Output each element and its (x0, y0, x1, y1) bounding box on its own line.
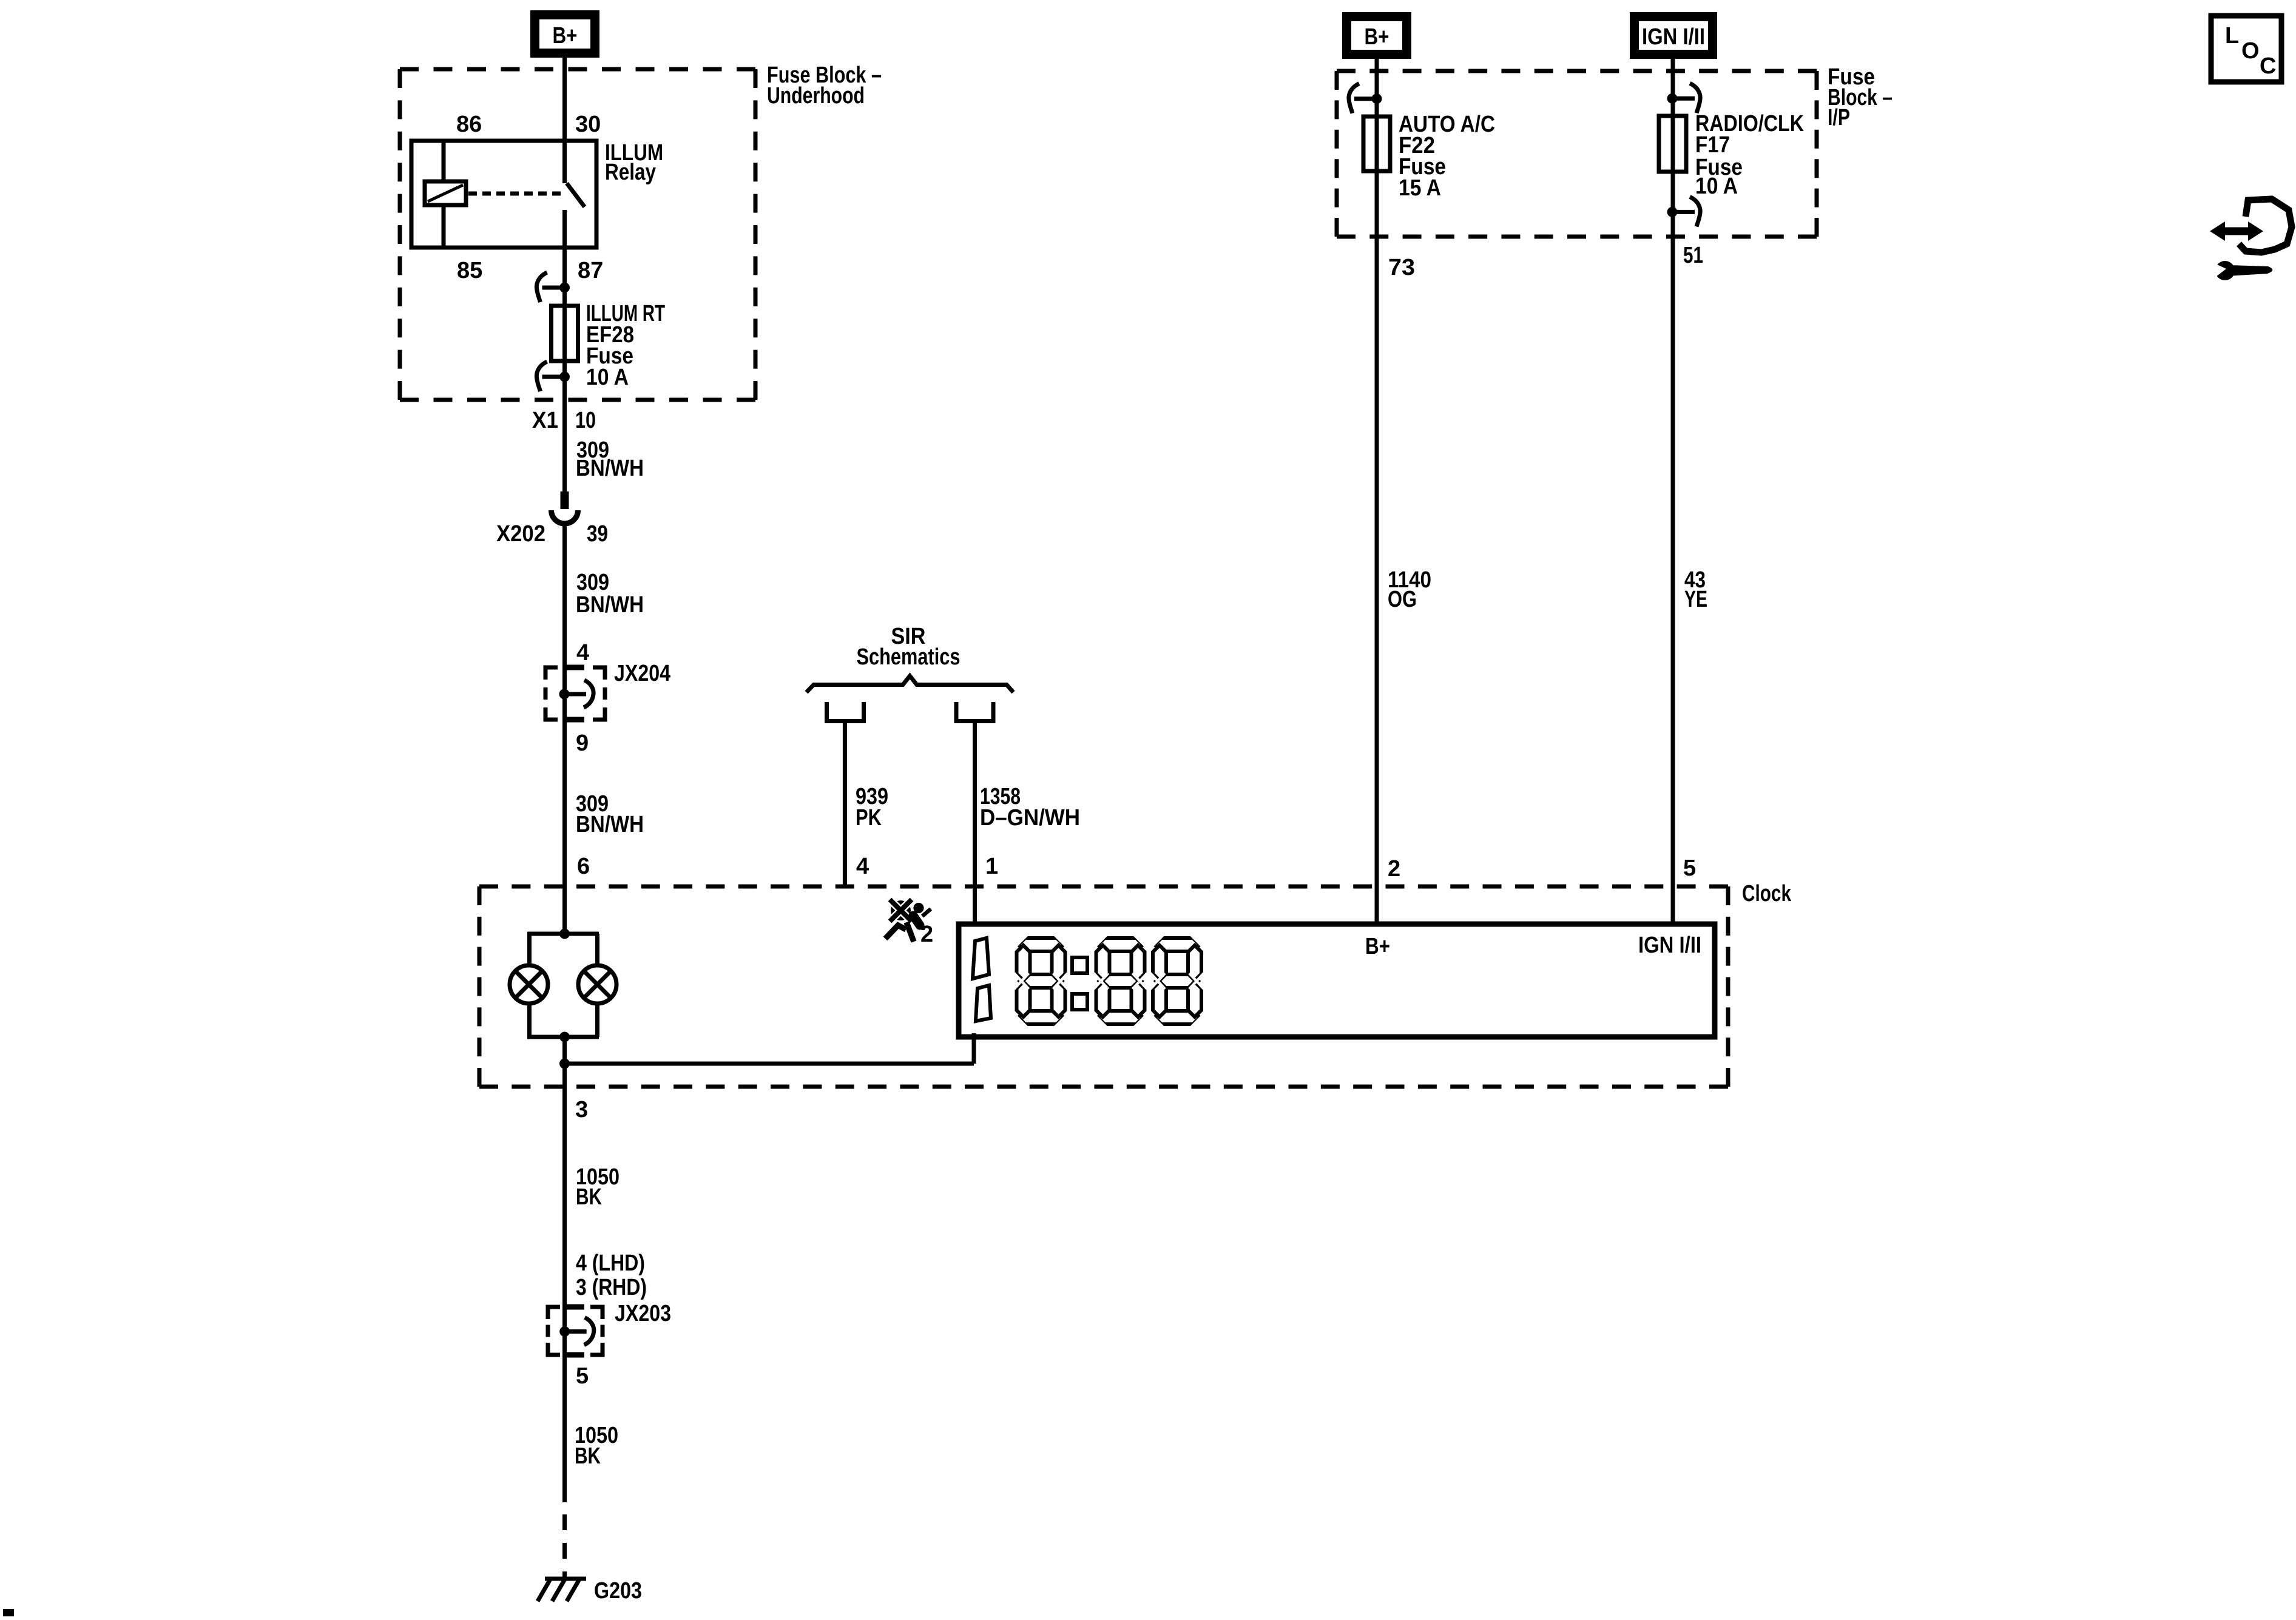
svg-text:Underhood: Underhood (767, 83, 865, 109)
svg-text:BK: BK (576, 1184, 602, 1210)
svg-text:4: 4 (576, 640, 589, 666)
svg-text:JX204: JX204 (614, 661, 670, 686)
svg-text:85: 85 (457, 258, 482, 283)
svg-text:BN/WH: BN/WH (576, 592, 644, 618)
svg-text:X1: X1 (532, 408, 558, 433)
svg-text:10 A: 10 A (586, 365, 629, 390)
svg-text:6: 6 (577, 854, 590, 879)
svg-text:D–GN/WH: D–GN/WH (980, 805, 1080, 831)
svg-text:G203: G203 (594, 1578, 642, 1604)
svg-text:51: 51 (1683, 243, 1703, 268)
svg-text:YE: YE (1684, 587, 1707, 612)
svg-text:4: 4 (856, 854, 869, 879)
svg-text:5: 5 (1683, 856, 1696, 881)
svg-text:5: 5 (576, 1363, 589, 1389)
svg-text:3 (RHD): 3 (RHD) (576, 1275, 647, 1300)
svg-text:BN/WH: BN/WH (576, 456, 644, 481)
svg-text:Relay: Relay (605, 160, 656, 185)
svg-text:9: 9 (576, 731, 589, 756)
svg-text:30: 30 (575, 112, 601, 137)
svg-text:C: C (2260, 53, 2276, 79)
svg-text:86: 86 (456, 112, 482, 137)
svg-text:X202: X202 (496, 521, 545, 547)
svg-text:O: O (2241, 38, 2260, 64)
svg-text:B+: B+ (1365, 934, 1390, 959)
svg-text:BN/WH: BN/WH (576, 812, 644, 837)
svg-text:Schematics: Schematics (857, 644, 961, 670)
svg-text:39: 39 (587, 521, 608, 547)
svg-text:309: 309 (576, 570, 609, 595)
svg-text:IGN I/II: IGN I/II (1642, 24, 1705, 50)
svg-text:Clock: Clock (1742, 881, 1792, 906)
svg-text:3: 3 (575, 1097, 588, 1122)
svg-text:I/P: I/P (1828, 105, 1850, 130)
svg-text:B+: B+ (553, 23, 578, 49)
svg-text:4 (LHD): 4 (LHD) (576, 1250, 645, 1276)
svg-text:B+: B+ (1365, 24, 1389, 50)
svg-text:10: 10 (575, 408, 596, 433)
svg-text:L: L (2225, 23, 2239, 49)
svg-text:15 A: 15 A (1399, 175, 1441, 201)
svg-text:PK: PK (856, 805, 882, 831)
svg-text:F17: F17 (1695, 132, 1730, 158)
svg-text:OG: OG (1388, 587, 1417, 612)
svg-text:10 A: 10 A (1695, 174, 1738, 199)
svg-text:87: 87 (578, 258, 603, 283)
svg-text:BK: BK (575, 1443, 601, 1469)
svg-text:1: 1 (985, 854, 998, 879)
svg-text:2: 2 (920, 922, 933, 947)
svg-text:73: 73 (1388, 255, 1415, 280)
svg-text:2: 2 (1388, 856, 1400, 882)
svg-text:IGN I/II: IGN I/II (1638, 933, 1701, 958)
svg-text:JX203: JX203 (615, 1301, 671, 1326)
